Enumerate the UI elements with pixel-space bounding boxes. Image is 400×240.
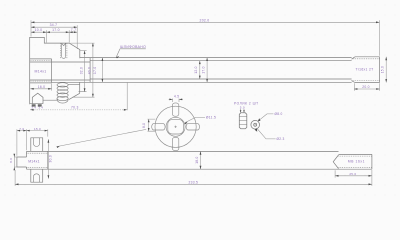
right thread chamfer bottom xyxy=(352,81,355,83)
dim 25.0 line xyxy=(335,175,372,177)
leader D8.0 xyxy=(258,114,274,121)
bar bottom line xyxy=(27,168,372,170)
vdim 30 arrows xyxy=(48,139,50,142)
leader D11.5 xyxy=(185,117,205,122)
bottom tab U slot xyxy=(33,174,39,182)
svg-text:12.0: 12.0 xyxy=(194,66,198,73)
25.0 arrows xyxy=(335,175,338,177)
dim 5.0 down arrows xyxy=(241,109,244,111)
leader D11.5 arrow xyxy=(184,122,187,125)
inner circle xyxy=(166,117,185,136)
16.0 arrows xyxy=(30,88,33,90)
svg-text:8.0: 8.0 xyxy=(142,123,146,128)
ext line x=127.2 for 70.3 xyxy=(126,83,128,111)
ext for 20.0 left xyxy=(354,83,356,91)
vdim C arrows xyxy=(102,58,104,61)
D8.0 leader arrow xyxy=(258,118,261,121)
7.0/15.0 arrows xyxy=(17,130,20,132)
svg-text:30.0: 30.0 xyxy=(49,155,53,162)
233.5 arrows xyxy=(15,183,18,185)
top tab U slot xyxy=(33,138,39,147)
ext x27.2 xyxy=(26,129,28,150)
shlifovano leader arrow xyxy=(116,56,119,59)
right thread bottom dashes xyxy=(352,79,380,81)
roller circle inner xyxy=(254,123,257,126)
ext x69.2 xyxy=(68,30,70,42)
dim 203.0 line xyxy=(31,21,379,23)
svg-text:3.4: 3.4 xyxy=(31,105,36,109)
roller center dot xyxy=(254,123,257,126)
svg-text:18.0: 18.0 xyxy=(195,156,199,163)
ext x17.2 xyxy=(16,129,18,156)
neck top line xyxy=(30,61,90,63)
shaft top outer xyxy=(80,57,352,59)
outer circle xyxy=(155,106,196,147)
70.3 arrows xyxy=(30,109,33,111)
svg-text:M14x1: M14x1 xyxy=(28,160,40,164)
thread band dashes top xyxy=(30,60,52,62)
vdim A arrows xyxy=(84,51,86,54)
svg-text:233.5: 233.5 xyxy=(188,180,198,184)
thread band bottom solid xyxy=(30,82,52,84)
right thread top dashes xyxy=(352,58,380,60)
right thread dashes top xyxy=(339,155,372,157)
left boss xyxy=(17,157,27,167)
vdim A x87.1 xyxy=(84,51,86,92)
left slot dim line xyxy=(148,119,150,131)
shaft top inner xyxy=(90,60,352,62)
flange 4.5 arrows (outside pointing in) xyxy=(169,99,172,101)
vdim 30 x46.3 xyxy=(47,139,49,178)
neck bottom line xyxy=(30,79,90,81)
ext 25 left xyxy=(334,170,336,177)
block body (threaded section of bar) xyxy=(27,151,48,169)
slot right xyxy=(186,124,199,130)
roller circle outer xyxy=(251,120,260,129)
svg-text:32.0: 32.0 xyxy=(80,67,84,74)
vdim B arrows xyxy=(92,43,94,46)
5.0 down arrowheads xyxy=(240,110,242,113)
bottom tab xyxy=(31,169,43,182)
shaft bottom outer xyxy=(52,81,352,83)
left vdim 8.0 xyxy=(13,154,15,170)
svg-text:8.0: 8.0 xyxy=(9,158,13,163)
slot left xyxy=(152,124,165,130)
shaft bottom inner xyxy=(90,78,352,80)
svg-text:15.0: 15.0 xyxy=(34,127,41,131)
top tab xyxy=(31,138,43,152)
left slot dim ticks xyxy=(148,119,156,131)
svg-text:M14x1: M14x1 xyxy=(35,70,47,74)
dim 20.0 line xyxy=(354,88,380,90)
ext x46.5 xyxy=(46,30,48,42)
step line right of hex piece xyxy=(43,99,57,101)
big leader line to bottom bar xyxy=(57,129,147,146)
step outline right of coil xyxy=(68,82,80,99)
svg-text:МВ 16х1: МВ 16х1 xyxy=(348,159,365,163)
ext x48.7 xyxy=(47,129,49,136)
hex end piece bottom left xyxy=(32,93,43,104)
vdim A top ref xyxy=(80,50,87,52)
svg-text:25.0: 25.0 xyxy=(349,172,356,176)
thread band M14x1 top solid xyxy=(30,58,52,60)
step at x=51.6 xyxy=(51,59,53,83)
svg-text:10.0: 10.0 xyxy=(35,28,43,32)
svg-text:5.0: 5.0 xyxy=(240,106,245,110)
right thread top solid xyxy=(339,153,372,155)
right thread chamfer xyxy=(333,155,338,169)
svg-text:17.0: 17.0 xyxy=(52,28,60,32)
leader D2.3 xyxy=(257,128,276,139)
svg-text:Ø2.3: Ø2.3 xyxy=(276,137,284,141)
right thread bottom solid xyxy=(355,82,380,84)
svg-text:34.7: 34.7 xyxy=(50,23,58,27)
dim row 10/17/7.7 line xyxy=(31,31,77,33)
right vdim x386.2 xyxy=(385,57,387,83)
vdim B x92.9 xyxy=(92,43,94,97)
threaded hole inner walls xyxy=(62,43,66,56)
mid vdim arrows xyxy=(199,61,201,64)
dim 70.3 line (dotted) xyxy=(30,109,127,111)
ext line y43.1 to vdim B xyxy=(71,42,95,44)
slot top xyxy=(172,103,178,116)
dim 4.5 line xyxy=(169,98,183,100)
203.0 arrows xyxy=(31,21,34,23)
ext 25/233.5 right xyxy=(371,170,373,186)
right thread dashes bottom xyxy=(339,166,372,168)
vdim C x102.4 xyxy=(101,58,103,83)
right end edge xyxy=(379,57,381,83)
svg-text:40.0: 40.0 xyxy=(88,67,92,74)
10/17/7.7 arrows xyxy=(31,31,34,33)
ext x77.2 xyxy=(76,25,78,49)
roller rect xyxy=(239,113,247,129)
svg-text:Tr16x1 2T: Tr16x1 2T xyxy=(355,67,373,71)
head outline left end xyxy=(30,37,80,104)
flange left dim arrows xyxy=(148,119,150,122)
right vdim arrows xyxy=(385,57,387,60)
svg-text:202.0: 202.0 xyxy=(200,18,210,22)
svg-text:Ø8.0: Ø8.0 xyxy=(274,112,282,116)
bottom ref line for vdim B xyxy=(73,96,95,98)
roller knurl lines xyxy=(239,117,247,125)
svg-text:РОЛИК 2 ШТ: РОЛИК 2 ШТ xyxy=(234,102,259,106)
ext for 20.0 right xyxy=(379,83,381,91)
dim 16.0 line xyxy=(30,88,51,90)
dim 233.5 line xyxy=(15,183,372,185)
ext line right x379.4 xyxy=(378,20,380,56)
ext line left x31 xyxy=(30,20,32,36)
D2.3 leader arrow xyxy=(255,128,258,131)
ext 233.5 left xyxy=(14,170,16,186)
svg-text:20.0: 20.0 xyxy=(362,85,370,89)
svg-text:4.5: 4.5 xyxy=(174,94,179,98)
right end edge bottom xyxy=(371,154,373,169)
bar top line xyxy=(27,150,339,152)
step at x=90.1 xyxy=(89,58,91,83)
svg-text:16.0: 16.0 xyxy=(38,85,46,89)
bottom ref line for vdim A xyxy=(79,91,87,93)
block thread dashes xyxy=(27,153,48,167)
left vdim arrows xyxy=(13,154,15,157)
base line under hex piece xyxy=(30,103,43,105)
dim 7/15 line xyxy=(17,130,48,132)
ext for 16.0 at x51.6 xyxy=(51,84,53,91)
leader SHLIFOVANO xyxy=(116,49,146,57)
mid vdim2 x207.1 xyxy=(206,58,208,83)
right thread top solid xyxy=(355,56,380,58)
mid vdim1 x199.8 xyxy=(199,61,201,79)
bar mid vdim arrows xyxy=(200,151,202,154)
threaded hole dashed walls xyxy=(60,43,67,59)
spring coil below shaft xyxy=(57,83,68,103)
threaded hole V notch xyxy=(62,43,66,45)
svg-text:17.0: 17.0 xyxy=(201,66,205,73)
svg-text:17.0: 17.0 xyxy=(93,67,97,74)
svg-text:Ø11.5: Ø11.5 xyxy=(206,116,216,120)
thread band dashes bottom xyxy=(30,80,52,82)
bar mid vdim line xyxy=(200,151,202,169)
rounded square hole xyxy=(168,120,184,134)
svg-text:3.4: 3.4 xyxy=(38,105,43,109)
big leader arrow xyxy=(57,146,60,148)
slot bottom xyxy=(172,137,178,150)
34.7 arrows xyxy=(31,26,34,28)
threaded hole bottom arc xyxy=(62,56,66,58)
left vdim ext xyxy=(14,157,17,167)
svg-text:15.0: 15.0 xyxy=(381,66,385,73)
right thread chamfer top xyxy=(352,57,355,59)
20.0 arrows xyxy=(354,88,357,90)
center mark xyxy=(174,126,176,128)
dim 34.7 line xyxy=(31,26,77,28)
svg-text:70.3: 70.3 xyxy=(71,106,79,110)
hex piece feet xyxy=(32,104,42,106)
dim 4.5 top: ext lines xyxy=(173,99,179,103)
